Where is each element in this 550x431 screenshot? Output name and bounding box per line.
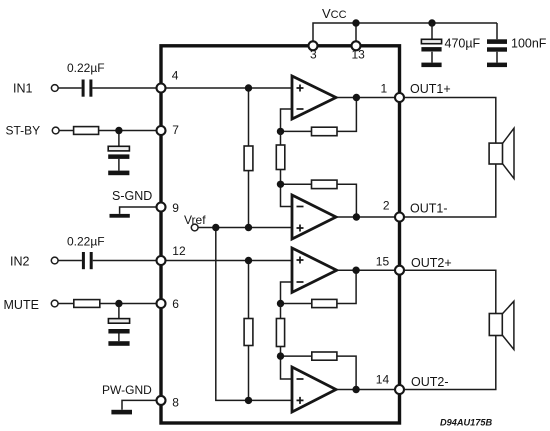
- junction (A1 output): [353, 94, 360, 101]
- pin 9: [157, 203, 166, 212]
- wire input divider column ch2: [248, 261, 250, 401]
- resistor R7 (A2 feedback): [312, 180, 338, 189]
- wire A3 inverting input and feedback: [281, 270, 400, 303]
- svg-text:ST-BY: ST-BY: [6, 124, 41, 138]
- resistor R6 (IN2 line to A4 + line): [244, 319, 253, 346]
- pin 15: [395, 266, 404, 275]
- junction (470uF tap): [428, 19, 435, 26]
- terminal Vref: [191, 224, 198, 231]
- terminal MUTE: [51, 300, 58, 307]
- ground PW-GND: [111, 410, 132, 415]
- capacitor C6 (MUTE, polarized): [108, 319, 129, 334]
- wire ST-BY line to pin 7: [59, 130, 161, 132]
- junction (Vref line tap ch1): [245, 224, 252, 231]
- svg-text:IN1: IN1: [13, 82, 33, 96]
- svg-text:7: 7: [172, 123, 179, 137]
- svg-text:MUTE: MUTE: [4, 298, 39, 312]
- wire PW-GND to pin 8: [122, 400, 161, 409]
- junction (A2 output): [353, 213, 360, 220]
- pin 6: [157, 299, 166, 308]
- resistor R5 (A1 fb to A2 fb): [276, 145, 285, 170]
- pin 4: [157, 84, 166, 93]
- junction (A4 + line tap): [245, 397, 252, 404]
- pin 8: [157, 396, 166, 405]
- svg-text:1: 1: [381, 82, 388, 96]
- resistor R9 (A3 fb to A4 fb): [276, 319, 284, 347]
- svg-text:12: 12: [172, 244, 186, 258]
- ground S-GND: [110, 214, 130, 218]
- wire A1 inverting input and feedback: [281, 98, 400, 132]
- junction (A3 fb node): [277, 300, 284, 307]
- terminal IN1: [51, 85, 58, 92]
- resistor R8 (A3 feedback): [312, 299, 337, 307]
- svg-text:IN2: IN2: [10, 255, 30, 269]
- op-amp A4: [292, 367, 336, 412]
- svg-text:OUT1-: OUT1-: [410, 201, 448, 215]
- ground (100nF): [487, 63, 507, 68]
- svg-text:13: 13: [352, 48, 366, 62]
- capacitor C4 100nF: [487, 39, 507, 51]
- pin 2: [395, 213, 404, 222]
- svg-text:14: 14: [376, 373, 390, 387]
- svg-text:4: 4: [172, 69, 179, 83]
- capacitor C3 470uF (polarized): [421, 39, 441, 51]
- pin 7: [157, 126, 166, 135]
- capacitor C2 (ST-BY, polarized): [108, 146, 129, 159]
- resistor R2 (MUTE series): [74, 300, 100, 308]
- resistor R3 (IN1 to Vref): [244, 146, 253, 171]
- junction (A3 output): [352, 267, 359, 274]
- svg-text:100nF: 100nF: [511, 37, 547, 51]
- svg-text:2: 2: [383, 199, 390, 213]
- wire A4 inverting input and feedback: [281, 356, 400, 389]
- svg-text:0.22µF: 0.22µF: [67, 235, 105, 249]
- wire MUTE cap drop: [118, 304, 120, 342]
- svg-text:OUT2-: OUT2-: [411, 375, 449, 389]
- wire A2 inverting input and feedback: [281, 184, 400, 217]
- pin 1: [395, 93, 404, 102]
- terminal ST-BY: [52, 127, 59, 134]
- speaker LS2: [489, 301, 514, 349]
- wire OUT2 loop to speaker LS2: [400, 270, 496, 389]
- wire MUTE line to pin 6: [58, 303, 161, 305]
- pin 14: [395, 385, 404, 394]
- wire Vref line to op-amp A2 + input: [198, 227, 292, 229]
- IC box U1 (power amplifier): [161, 46, 400, 423]
- svg-text:9: 9: [172, 201, 179, 215]
- op-amp A1: [292, 76, 336, 119]
- wire ST-BY cap drop: [118, 131, 120, 171]
- wire 470uF cap drop: [431, 23, 433, 63]
- pin 12: [157, 256, 166, 265]
- svg-text:D94AU175B: D94AU175B: [440, 418, 492, 428]
- wire Vref drop to op-amp A4 + input: [216, 228, 292, 401]
- wire OUT1 loop to speaker LS1: [400, 98, 496, 218]
- junction (IN1 line tap): [245, 84, 252, 91]
- svg-text:15: 15: [376, 255, 390, 269]
- wire bridge resistor ch1: [280, 131, 282, 184]
- speaker LS1: [489, 128, 514, 178]
- resistor R10 (A4 feedback): [312, 352, 337, 360]
- svg-text:OUT2+: OUT2+: [411, 256, 452, 270]
- svg-text:0.22µF: 0.22µF: [67, 61, 105, 75]
- wire bridge resistor ch2: [280, 304, 282, 357]
- op-amp A2: [292, 195, 336, 239]
- svg-text:Vref: Vref: [184, 213, 206, 227]
- junction (IN2 line tap): [245, 257, 252, 264]
- resistor R4 (A1 feedback): [312, 127, 338, 136]
- junction (A2 fb node): [277, 181, 284, 188]
- svg-text:470µF: 470µF: [445, 37, 481, 51]
- junction (A4 output): [352, 386, 359, 393]
- ground (470uF): [421, 63, 441, 68]
- wire S-GND to pin 9: [120, 207, 161, 214]
- capacitor C5 0.22uF (series, IN2): [82, 252, 93, 269]
- op-amp A3: [292, 248, 337, 292]
- wire IN2 input line to op-amp A3 + input: [58, 260, 292, 262]
- junction (A1 fb node): [277, 128, 284, 135]
- ground (ST-BY cap): [108, 171, 129, 176]
- svg-text:3: 3: [310, 48, 317, 62]
- capacitor C1 0.22uF (series, IN1): [82, 80, 93, 97]
- pin 13: [352, 41, 361, 50]
- junction (pin 13 riser): [352, 19, 359, 26]
- junction (ST-BY node): [115, 127, 122, 134]
- svg-text:OUT1+: OUT1+: [410, 82, 451, 96]
- junction (A4 fb node): [277, 352, 284, 359]
- resistor R1 (ST-BY series): [74, 127, 99, 135]
- junction (MUTE node): [115, 300, 122, 307]
- svg-text:S-GND: S-GND: [112, 189, 152, 203]
- wire VCC rail: [313, 23, 497, 46]
- wire IN1 input line to op-amp A1 + input: [58, 87, 292, 89]
- junction (Vref drop): [212, 224, 219, 231]
- ground (MUTE cap): [108, 341, 129, 346]
- terminal IN2: [51, 257, 58, 264]
- wire input divider column ch1: [248, 88, 250, 228]
- pin 3: [309, 41, 318, 50]
- svg-text:8: 8: [172, 396, 179, 410]
- svg-text:PW-GND: PW-GND: [102, 383, 152, 397]
- wire 100nF cap drop: [496, 23, 498, 63]
- svg-text:VCC: VCC: [322, 6, 347, 21]
- svg-text:6: 6: [172, 297, 179, 311]
